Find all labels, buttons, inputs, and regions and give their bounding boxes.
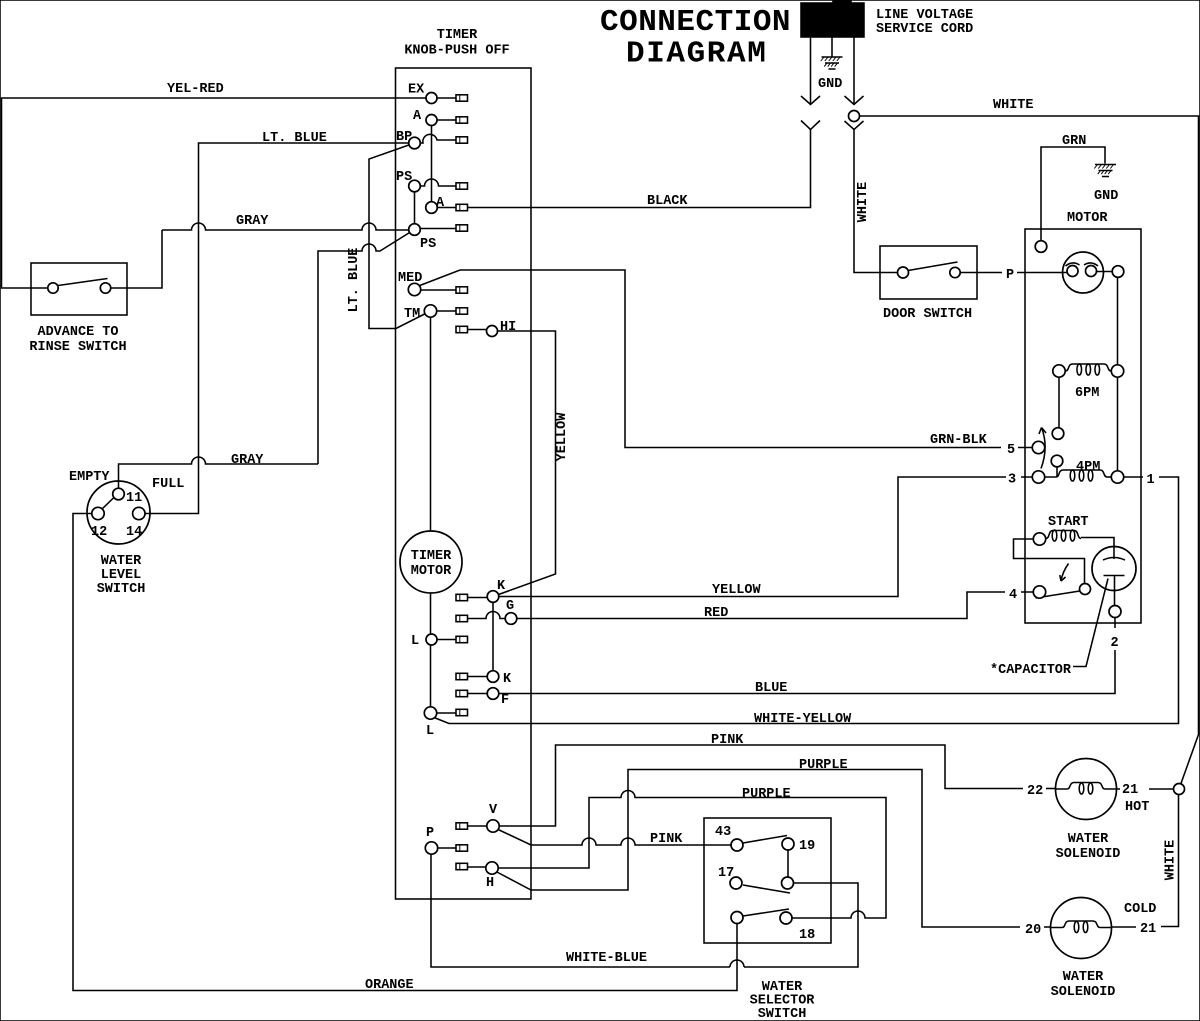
svg-text:BP: BP [396, 130, 412, 145]
svg-text:22: 22 [1027, 784, 1043, 799]
svg-text:BLUE: BLUE [755, 681, 787, 696]
svg-text:4: 4 [1009, 588, 1017, 603]
svg-text:EX: EX [408, 83, 425, 98]
svg-text:H: H [486, 876, 494, 891]
svg-text:PURPLE: PURPLE [742, 787, 791, 802]
svg-text:YEL-RED: YEL-RED [167, 82, 224, 97]
svg-text:LT. BLUE: LT. BLUE [347, 248, 362, 313]
svg-text:14: 14 [126, 525, 142, 540]
svg-text:PURPLE: PURPLE [799, 758, 848, 773]
svg-text:SOLENOID: SOLENOID [1056, 847, 1121, 862]
svg-text:WHITE-BLUE: WHITE-BLUE [566, 951, 647, 966]
svg-text:TIMER: TIMER [437, 28, 478, 43]
svg-text:WHITE: WHITE [1164, 840, 1179, 881]
svg-text:F: F [501, 693, 509, 708]
svg-text:A: A [413, 109, 422, 124]
svg-text:WHITE: WHITE [993, 98, 1034, 113]
svg-text:MOTOR: MOTOR [1067, 211, 1108, 226]
svg-text:2: 2 [1111, 636, 1119, 651]
svg-text:HOT: HOT [1125, 800, 1149, 815]
svg-text:RINSE SWITCH: RINSE SWITCH [29, 340, 126, 355]
svg-text:PINK: PINK [650, 832, 683, 847]
svg-text:12: 12 [91, 525, 107, 540]
svg-text:43: 43 [715, 825, 731, 840]
svg-text:YELLOW: YELLOW [712, 583, 762, 598]
svg-text:5: 5 [1007, 443, 1015, 458]
svg-text:18: 18 [799, 928, 815, 943]
svg-text:EMPTY: EMPTY [69, 470, 110, 485]
svg-text:SERVICE CORD: SERVICE CORD [876, 22, 973, 37]
svg-text:1: 1 [1147, 473, 1155, 488]
svg-text:RED: RED [704, 606, 728, 621]
svg-text:PS: PS [420, 237, 436, 252]
svg-text:DOOR SWITCH: DOOR SWITCH [883, 307, 972, 322]
svg-text:LINE VOLTAGE: LINE VOLTAGE [876, 8, 973, 23]
svg-text:HI: HI [500, 320, 516, 335]
svg-text:BLACK: BLACK [647, 194, 688, 209]
svg-text:V: V [489, 803, 498, 818]
svg-text:COLD: COLD [1124, 902, 1156, 917]
svg-text:GRAY: GRAY [231, 453, 264, 468]
svg-text:G: G [506, 599, 514, 614]
svg-text:20: 20 [1025, 923, 1041, 938]
svg-text:11: 11 [126, 491, 142, 506]
svg-text:GND: GND [818, 77, 842, 92]
svg-text:6PM: 6PM [1075, 386, 1099, 401]
svg-text:*CAPACITOR: *CAPACITOR [990, 663, 1072, 678]
svg-text:YELLOW: YELLOW [555, 412, 570, 462]
svg-text:START: START [1048, 515, 1089, 530]
svg-text:K: K [503, 672, 512, 687]
svg-text:4PM: 4PM [1076, 460, 1100, 475]
svg-text:MED: MED [398, 271, 422, 286]
svg-text:3: 3 [1008, 473, 1016, 488]
svg-text:19: 19 [799, 839, 815, 854]
svg-text:SWITCH: SWITCH [97, 582, 146, 597]
svg-text:LT. BLUE: LT. BLUE [262, 131, 327, 146]
svg-text:P: P [426, 826, 434, 841]
svg-text:KNOB-PUSH OFF: KNOB-PUSH OFF [404, 44, 509, 59]
svg-text:ADVANCE TO: ADVANCE TO [37, 325, 118, 340]
svg-text:SWITCH: SWITCH [758, 1007, 807, 1021]
svg-text:ORANGE: ORANGE [365, 978, 414, 993]
svg-text:TM: TM [404, 307, 420, 322]
svg-text:17: 17 [718, 866, 734, 881]
svg-text:WHITE: WHITE [856, 182, 871, 223]
svg-text:L: L [426, 724, 434, 739]
svg-text:A: A [436, 196, 445, 211]
svg-text:PS: PS [396, 170, 412, 185]
svg-text:WHITE-YELLOW: WHITE-YELLOW [754, 712, 852, 727]
svg-text:SOLENOID: SOLENOID [1051, 985, 1116, 1000]
svg-text:K: K [497, 579, 506, 594]
svg-text:L: L [411, 634, 419, 649]
svg-text:GRN-BLK: GRN-BLK [930, 433, 988, 448]
svg-text:GND: GND [1094, 189, 1118, 204]
svg-text:21: 21 [1140, 922, 1156, 937]
svg-text:PINK: PINK [711, 733, 744, 748]
svg-text:WATER: WATER [101, 554, 142, 569]
svg-text:DIAGRAM: DIAGRAM [626, 37, 767, 72]
svg-text:TIMER: TIMER [411, 549, 452, 564]
svg-text:LEVEL: LEVEL [101, 568, 142, 583]
svg-text:MOTOR: MOTOR [411, 564, 452, 579]
svg-text:21: 21 [1122, 783, 1138, 798]
svg-text:GRAY: GRAY [236, 214, 269, 229]
svg-text:CONNECTION: CONNECTION [600, 5, 791, 40]
svg-text:P: P [1006, 268, 1014, 283]
svg-text:FULL: FULL [152, 477, 184, 492]
svg-text:GRN: GRN [1062, 134, 1086, 149]
svg-text:WATER: WATER [1068, 832, 1109, 847]
svg-text:WATER: WATER [1063, 970, 1104, 985]
